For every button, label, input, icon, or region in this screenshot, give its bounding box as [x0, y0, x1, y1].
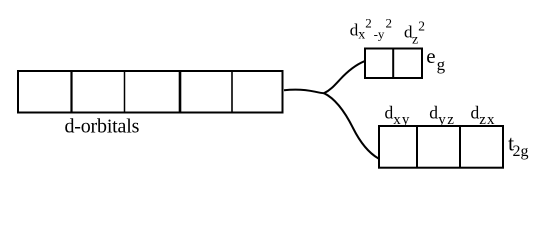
svg-text:2: 2 [418, 18, 425, 33]
svg-text:zx: zx [479, 112, 495, 128]
wire trunk from d-orbitals box [284, 90, 324, 94]
svg-text:d: d [471, 102, 480, 122]
svg-text:2g: 2g [513, 143, 529, 160]
t_2g cell divider 1 [416, 126, 418, 169]
svg-text:yz: yz [438, 112, 455, 128]
d-orbitals level box (5 cells) [18, 71, 283, 113]
label: d_yz [429, 102, 455, 128]
svg-text:z: z [412, 33, 418, 48]
d-orbitals cell divider 2 [124, 71, 126, 113]
t_2g cell divider 2 [459, 126, 461, 169]
label: t_2g [508, 130, 529, 160]
wire lower branch to t_2g [324, 93, 379, 158]
label: d_xy [385, 102, 411, 128]
wire upper branch to e_g [324, 61, 365, 93]
svg-text:d: d [429, 102, 438, 122]
svg-text:2: 2 [386, 16, 393, 31]
label: d_x2-y2 [350, 16, 392, 43]
svg-text:2: 2 [365, 16, 372, 31]
svg-text:d: d [385, 102, 394, 122]
svg-text:g: g [437, 55, 446, 74]
t_2g level box (3 cells) [379, 126, 503, 168]
label: e_g [426, 44, 445, 74]
label: d_zx [471, 102, 496, 128]
e_g cell divider [392, 48, 394, 79]
svg-text:e: e [426, 44, 435, 68]
d-orbitals cell divider 3 [179, 70, 182, 113]
svg-text:-y: -y [374, 26, 385, 41]
d-orbitals cell divider 4 [231, 71, 233, 113]
svg-text:d-orbitals: d-orbitals [65, 116, 140, 138]
e_g level box (2 cells) [365, 49, 422, 79]
d-orbitals cell divider 1 [70, 70, 72, 113]
label: d_z2 [404, 18, 425, 47]
svg-text:xy: xy [393, 112, 410, 128]
